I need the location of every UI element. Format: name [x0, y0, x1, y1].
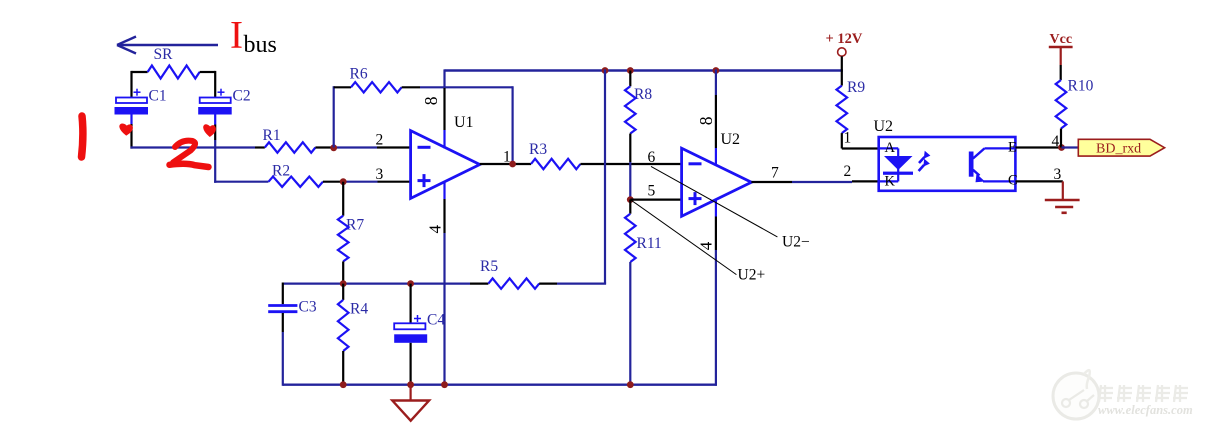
resistor SR	[132, 46, 216, 78]
wire: feedback riser from pin2 node up to R6	[333, 86, 335, 147]
svg-text:U2+: U2+	[738, 267, 766, 284]
svg-text:BD_rxd: BD_rxd	[1096, 142, 1141, 157]
resistor R2	[269, 163, 323, 187]
resistor R9	[837, 79, 866, 133]
callout line to U2-	[651, 166, 777, 237]
node: rail junction x605	[602, 67, 609, 74]
wire: I_bus direction arrow	[117, 37, 218, 54]
svg-text:1: 1	[503, 149, 511, 166]
wire: mid bias rail left of R5	[283, 283, 470, 285]
node: pin5 junction	[627, 196, 634, 203]
wire: C2 down to R2 line	[214, 115, 216, 183]
svg-text:4: 4	[696, 241, 715, 250]
callout line to U2+	[630, 200, 736, 275]
wire: R10 to pin4 node	[1060, 129, 1062, 148]
capacitor C2	[198, 88, 250, 115]
annotation: red heart on C1	[121, 125, 132, 135]
label Ibus	[230, 14, 277, 59]
node: pin4/R10 junction	[1058, 144, 1065, 151]
opto LED	[880, 148, 913, 181]
svg-text:C1: C1	[149, 88, 167, 105]
node: ground rail R4	[340, 381, 347, 388]
node: pin2 junction	[330, 144, 337, 151]
optocoupler U2 box	[874, 118, 1016, 191]
svg-text:R9: R9	[847, 79, 865, 96]
wire: R3 to U2 pin6	[580, 163, 681, 165]
svg-text:8: 8	[696, 116, 716, 125]
node: pin1 junction	[509, 161, 516, 168]
svg-text:6: 6	[648, 149, 656, 166]
node: mid rail C4 junction	[407, 280, 414, 287]
svg-text:R8: R8	[634, 86, 652, 103]
wire: C1 to node 2 rail	[130, 115, 132, 149]
capacitor C3	[268, 283, 317, 386]
wire: R8 down to pin5 node	[629, 134, 631, 200]
svg-text:R10: R10	[1068, 78, 1094, 95]
svg-text:R5: R5	[480, 258, 498, 275]
resistor R1	[263, 127, 316, 153]
svg-text:R11: R11	[637, 235, 662, 252]
op-amp U2	[682, 131, 752, 216]
node: rail junction x716	[713, 67, 720, 74]
wire: bottom ground rail	[283, 384, 717, 386]
capacitor C4	[394, 284, 445, 385]
svg-text:8: 8	[421, 96, 441, 105]
ground symbol main (triangle)	[392, 385, 429, 421]
svg-text:SR: SR	[154, 46, 174, 63]
wire: opto pin3 to ground	[1015, 181, 1062, 199]
U1 pin 8 power stub	[443, 69, 445, 148]
svg-text:R3: R3	[529, 141, 547, 158]
svg-text:C4: C4	[427, 312, 445, 329]
node: ground rail U1 pin4	[441, 381, 448, 388]
resistor R6	[334, 65, 420, 92]
wire: SR left lead down to C1	[130, 71, 132, 97]
wire: pin5 node to U2	[630, 199, 681, 201]
ground (earth) symbol right	[1045, 200, 1080, 213]
svg-text:www.elecfans.com: www.elecfans.com	[1098, 403, 1193, 417]
wire: C2 branch to R2	[214, 181, 268, 183]
svg-text:4: 4	[426, 225, 445, 234]
power terminal Vcc	[1049, 32, 1073, 80]
svg-text:R7: R7	[346, 217, 364, 234]
op-amp U1	[411, 114, 480, 199]
opto phototransistor	[969, 148, 1015, 182]
wire: R9 to opto pin1	[842, 133, 879, 148]
annotation: red mark 1	[82, 116, 83, 157]
resistor R7	[338, 182, 364, 284]
U1 pin 4 stub down to ground rail	[443, 182, 445, 385]
svg-text:U2: U2	[874, 118, 894, 135]
svg-text:2: 2	[376, 132, 384, 149]
annotation: red mark 2	[170, 141, 209, 167]
wire: U2 output pin7 to opto pin2	[751, 180, 878, 183]
resistor R4	[338, 284, 368, 385]
wire: R11 down to ground rail	[629, 262, 631, 385]
svg-text:C2: C2	[233, 88, 251, 105]
svg-text:3: 3	[376, 166, 384, 183]
svg-text:U2: U2	[721, 131, 741, 148]
wire: mid bias rail right of R5	[557, 283, 606, 285]
capacitor C1	[115, 88, 167, 115]
node: ground rail C4	[407, 381, 414, 388]
svg-text:I: I	[230, 14, 243, 57]
wire: U1 output pin1 to R3	[480, 163, 531, 165]
resistor R8	[625, 71, 652, 134]
node: pin3 junction	[340, 178, 347, 185]
watermark CJK-style glyph blocks	[1098, 385, 1188, 402]
svg-text:1: 1	[844, 130, 852, 147]
wire: mid-rail riser x605	[604, 69, 606, 283]
resistor R10	[1056, 78, 1094, 129]
resistor R3	[529, 141, 580, 169]
svg-text:R1: R1	[263, 127, 281, 144]
net flag BD_rxd	[1062, 139, 1165, 156]
wire: R2 to U1 pin3	[323, 181, 411, 183]
watermark logo	[1053, 370, 1099, 419]
wire: R6 to output riser	[420, 86, 513, 88]
resistor R5	[470, 258, 557, 289]
resistor R11	[625, 200, 662, 262]
node: ground rail R11	[627, 381, 634, 388]
node: mid rail R7/R4 junction	[340, 280, 347, 287]
power terminal +12V	[826, 31, 863, 86]
wire: riser down to pin1 node	[511, 86, 513, 164]
wire: node2 horizontal from C1 to R1	[130, 146, 255, 148]
svg-text:C3: C3	[299, 299, 317, 316]
svg-text:bus: bus	[244, 32, 277, 58]
svg-text:U2−: U2−	[782, 234, 810, 251]
svg-text:Vcc: Vcc	[1050, 32, 1073, 47]
U2 pin 8 power stub	[715, 69, 717, 166]
svg-text:5: 5	[648, 183, 656, 200]
svg-text:2: 2	[844, 163, 852, 180]
svg-text:7: 7	[771, 165, 779, 182]
annotation: red heart on C2	[204, 125, 214, 135]
opto photon arrow	[919, 151, 931, 171]
node: rail junction x630	[627, 67, 634, 74]
wire: SR right lead down to C2	[214, 71, 216, 97]
svg-text:3: 3	[1054, 166, 1062, 183]
wire: top supply rail	[445, 69, 843, 71]
wire: R1 to U1 pin2	[315, 146, 410, 148]
wire: opto pin4 to BD_rxd node	[1015, 146, 1061, 148]
svg-text:A: A	[885, 140, 896, 156]
svg-text:K: K	[885, 174, 896, 190]
svg-text:U1: U1	[454, 114, 474, 131]
svg-text:+ 12V: + 12V	[826, 31, 863, 47]
svg-text:R6: R6	[350, 65, 368, 82]
svg-text:R4: R4	[350, 301, 368, 318]
U2 pin 4 stub down to ground rail	[715, 199, 717, 386]
